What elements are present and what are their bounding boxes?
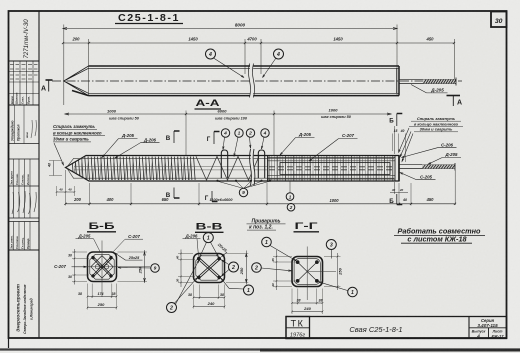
title block [286, 317, 507, 339]
pile section outline [66, 156, 400, 182]
B-B corner bar dots [91, 256, 94, 259]
break symbol top view [250, 62, 253, 99]
G-G labels [262, 237, 272, 247]
B-B X diagonals [92, 258, 111, 277]
V-V corner dots [197, 257, 201, 261]
B-B left small dims [74, 249, 76, 285]
left title strip [38, 11, 40, 338]
spiral sparse zone [196, 156, 259, 180]
right cage (stirrup mesh) [272, 156, 390, 180]
protruding bars right (top view) [399, 78, 456, 80]
pile elevation body [52, 80, 462, 82]
section marker A left [46, 79, 53, 81]
G-G right dim 250 [337, 253, 339, 290]
dim 8000 [63, 28, 397, 30]
callout circles 4 1 2 4 [221, 129, 229, 137]
V-V left dims [180, 250, 182, 288]
G-G bottom dims [292, 302, 323, 304]
protruding bars right (section) [399, 164, 455, 166]
B-B spiral diamond [91, 256, 113, 278]
section markers G top/bottom [214, 131, 220, 133]
V-V outline octagon [194, 254, 225, 283]
V-V right dim 250 [245, 251, 247, 285]
V-V thick X [198, 259, 218, 278]
section markers B top/bottom [174, 130, 180, 132]
sheet number box 30 [491, 12, 507, 28]
spiral dense zone: steep strokes (front) [72, 157, 195, 180]
middle long bars [74, 165, 268, 167]
B-B outline octagon [88, 252, 117, 282]
section markers B(right) top/bottom [397, 113, 403, 115]
V-V bottom dims [194, 297, 225, 299]
section A-A dim row (spiral pitch) [65, 113, 391, 115]
B-B bottom dims [88, 296, 117, 298]
B-B center spiral circles [101, 265, 104, 268]
G-G left dims [276, 250, 278, 290]
callout 4 circles top view [206, 49, 216, 59]
bottom scan edge band [0, 348, 520, 350]
spiral dense zone: back strokes [74, 157, 191, 180]
callout 9 with fan leaders [239, 188, 247, 196]
section marker A right [447, 95, 461, 97]
break lines section view [251, 148, 254, 187]
longitudinal bars [73, 158, 394, 160]
bottom dim row section A-A [66, 203, 456, 205]
hairpin loops at break [221, 150, 227, 179]
extension lines top dims [63, 25, 65, 106]
G-G corner dots + spokes [296, 260, 300, 264]
dim row 200/1450/4700/1450/450 [63, 42, 454, 44]
B-B right dim 250 [144, 250, 146, 283]
G-G outline rounded square [292, 257, 323, 287]
callouts 1 2 under cage [289, 182, 291, 194]
